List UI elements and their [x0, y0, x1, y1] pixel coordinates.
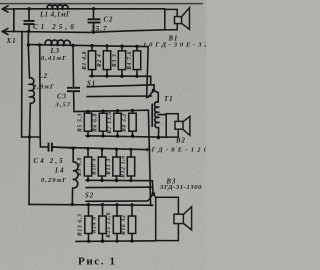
wire ladder4 top rail: [29, 203, 153, 206]
connector X1 arrow terminal 2: [2, 28, 14, 34]
svg-text:R1 4,8: R1 4,8: [82, 51, 88, 71]
transformer T1 core: [151, 104, 153, 128]
speaker B2 magnet rectangle: [166, 114, 178, 137]
node dot R2 bottom: [105, 74, 108, 77]
resistor R3: [118, 46, 125, 76]
resistor R2: [103, 46, 110, 76]
svg-text:R9 4,8: R9 4,8: [77, 157, 83, 177]
inductor L1: [47, 5, 68, 9]
resistor R13: [85, 205, 92, 242]
svg-text:R11 3: R11 3: [106, 158, 112, 176]
resistor R5: [84, 111, 91, 135]
svg-text:R6 6,8: R6 6,8: [93, 113, 99, 133]
transformer T1 winding: [154, 102, 158, 128]
node dot rail3/R2: [105, 44, 108, 47]
node dot R4 bottom: [135, 75, 138, 78]
svg-text:R2 4: R2 4: [97, 54, 103, 69]
resistor R7: [114, 111, 121, 136]
node dot y137: [28, 135, 31, 138]
resistor R6: [99, 111, 106, 136]
wire y137 to vertical C: [30, 136, 41, 138]
node dot R15 top: [115, 203, 118, 206]
svg-text:R3 3: R3 3: [112, 54, 118, 69]
wire pivot to T1 top: [154, 91, 159, 102]
svg-text:10ГД-30Е-32: 10ГД-30Е-32: [143, 41, 206, 48]
node dot ladder2 R6 top: [101, 109, 104, 112]
resistor R11: [113, 149, 120, 180]
svg-text:R5 5,3: R5 5,3: [78, 113, 84, 133]
resistor R9: [84, 149, 91, 181]
wire ladder3 bottom rail: [86, 179, 152, 181]
svg-text:3,57: 3,57: [55, 102, 72, 109]
resistor R12: [127, 150, 134, 181]
node dot ladder2 R8 top: [131, 109, 134, 112]
svg-text:0,29мГ: 0,29мГ: [41, 177, 67, 184]
capacitor C4: [49, 143, 74, 152]
node dot R9 bottom: [86, 179, 89, 182]
node dot R11 top: [115, 148, 118, 151]
node dot R5 bottom: [86, 134, 89, 137]
node dot R12 bottom: [129, 179, 132, 182]
resistor R14: [99, 205, 106, 242]
node dot R14 top: [101, 203, 104, 206]
wire S1 pivot drop: [153, 85, 155, 91]
speaker B2 horn: [183, 116, 190, 135]
svg-text:Рис. 1: Рис. 1: [78, 256, 117, 268]
svg-text:0,41мГ: 0,41мГ: [41, 55, 67, 62]
speaker B1 driver square: [175, 17, 182, 24]
node dot R14 bottom: [101, 240, 104, 243]
svg-text:R4 7,6: R4 7,6: [127, 51, 133, 71]
node dot S2 pivot: [152, 192, 156, 196]
svg-text:2,9мГ: 2,9мГ: [32, 84, 55, 91]
node dot R16 bottom: [130, 239, 133, 242]
node dot rail1/C1: [27, 7, 30, 10]
node dot R1 bottom: [90, 74, 93, 77]
connector X1 bar: [13, 8, 15, 32]
node dot R13 top: [87, 203, 90, 206]
switch S2 wiper: [148, 194, 153, 201]
node dot R15 bottom: [115, 239, 118, 242]
svg-text:В2: В2: [175, 138, 186, 145]
node dot R9 top: [86, 147, 89, 150]
wire vertical B (rail2 to rail3 and down): [27, 32, 29, 45]
resistor R4: [133, 46, 140, 76]
speaker B3 driver square: [174, 214, 183, 223]
svg-text:X1: X1: [6, 37, 17, 45]
wire midrange bottom rail: [86, 136, 166, 137]
speaker B2 driver square: [175, 121, 183, 129]
paper background: [0, 0, 206, 270]
svg-text:4ГД-8Е-120: 4ГД-8Е-120: [144, 146, 206, 153]
resistor R10: [98, 149, 105, 181]
svg-text:R12 1,6: R12 1,6: [121, 155, 127, 179]
node dot R6 bottom: [101, 134, 104, 137]
node dot rail3/R4: [135, 45, 138, 48]
capacitor C1: [24, 9, 35, 32]
wire rail3 (midrange feed): [28, 45, 148, 47]
speaker B3 horn: [183, 207, 191, 230]
svg-text:R16 32: R16 32: [121, 215, 127, 237]
node dot rail1/C2: [92, 7, 95, 10]
speaker B1 magnet rectangle: [165, 9, 177, 29]
node dot rail3/R1: [90, 44, 93, 47]
wire rail2 (input common): [13, 30, 165, 33]
svg-text:R8 3,2: R8 3,2: [122, 113, 128, 133]
node dot rail3 left: [27, 43, 30, 46]
svg-text:R10 4: R10 4: [92, 158, 98, 176]
svg-text:C2: C2: [104, 16, 114, 23]
node dot R8 bottom: [131, 135, 134, 138]
node dot R13 bottom: [87, 240, 90, 243]
switch S2 contact line B: [86, 200, 148, 202]
wire L2 bottom to node: [29, 103, 30, 204]
svg-text:R13 6,3: R13 6,3: [78, 214, 84, 238]
node dot R16 top: [130, 203, 133, 206]
wire rail1 top (input + to B1): [13, 8, 165, 10]
node dot rail2/C1: [27, 30, 30, 33]
svg-text:R7 13,6: R7 13,6: [107, 111, 113, 135]
wire T1 bottom to rail: [157, 128, 159, 138]
node dot rail3/C3: [71, 44, 74, 47]
wire vertical C (rail3 down to C4 wire): [40, 45, 48, 147]
node dot rail2/C2: [92, 30, 95, 33]
switch S1 contact line B: [87, 95, 152, 98]
inductor L3: [45, 40, 70, 45]
node dot T1 bottom: [157, 136, 160, 139]
node dot rail3/vertical C: [38, 43, 41, 46]
resistor R8: [129, 111, 136, 137]
wire vertical A (rail2 left down to C4 node): [22, 32, 30, 138]
node dot R10 top: [100, 147, 103, 150]
inductor L4: [72, 148, 74, 162]
node dot R3 bottom: [120, 75, 123, 78]
capacitor C3: [67, 45, 80, 111]
svg-text:L1 4,1мГ: L1 4,1мГ: [39, 11, 71, 18]
resistor R1: [88, 46, 95, 76]
wire ladder1 bottom rail: [90, 76, 151, 85]
wire vertical V1 (rail3 end down across S1 contacts): [147, 47, 149, 98]
svg-text:L3: L3: [50, 48, 61, 55]
switch S1 wiper: [148, 91, 153, 98]
svg-text:C4 2,5: C4 2,5: [34, 158, 65, 165]
capacitor C2: [88, 9, 101, 32]
resistor R15: [113, 205, 120, 241]
svg-text:C1 25,0: C1 25,0: [33, 24, 77, 31]
top rule line: [0, 3, 203, 5]
svg-text:R15 13,6: R15 13,6: [106, 212, 112, 239]
switch S1 contact line A: [87, 85, 154, 87]
node dot R7 bottom: [116, 134, 119, 137]
svg-text:L4: L4: [54, 168, 65, 175]
wire tweeter bottom rail: [76, 240, 156, 243]
speaker B3 magnet rectangle: [156, 197, 179, 240]
node dot S1 pivot: [152, 89, 156, 93]
svg-text:R14 8: R14 8: [92, 216, 98, 234]
wire vertical V2 (ladder2 rail to S2 contact): [148, 110, 150, 187]
inductor L2: [30, 78, 35, 104]
node dot R10 bottom: [100, 179, 103, 182]
wire L2 branch down: [28, 45, 29, 78]
node dot rail3/R3: [120, 45, 123, 48]
node dot ladder2 R5 top: [86, 110, 89, 113]
node dot R12 top: [129, 148, 132, 151]
node dot L4 top: [72, 147, 75, 150]
wire T1 tap to B2: [158, 114, 166, 116]
switch S2 contact line A: [86, 186, 150, 188]
wire ladder3 rail corner down to pivot: [151, 181, 154, 194]
node dot ladder2 R7 top: [116, 109, 119, 112]
svg-text:3ГД-31-1300: 3ГД-31-1300: [159, 184, 202, 191]
resistor R16: [128, 205, 135, 241]
node dot L4 bottom: [71, 203, 74, 206]
wire ladder2 top rail: [74, 110, 148, 111]
wire pivot to B3: [153, 194, 155, 197]
svg-text:S2: S2: [85, 192, 94, 199]
svg-text:C3: C3: [57, 93, 67, 100]
wire V2 lower tail across contact B: [149, 187, 151, 205]
wire ladder3 top rail: [53, 147, 151, 150]
svg-text:Т1: Т1: [164, 96, 174, 103]
node dot V2 / S2 contact A: [149, 186, 152, 189]
speaker B1 horn: [182, 8, 190, 30]
node dot R11 bottom: [115, 179, 118, 182]
connector X1 arrow terminal 1: [2, 6, 14, 12]
